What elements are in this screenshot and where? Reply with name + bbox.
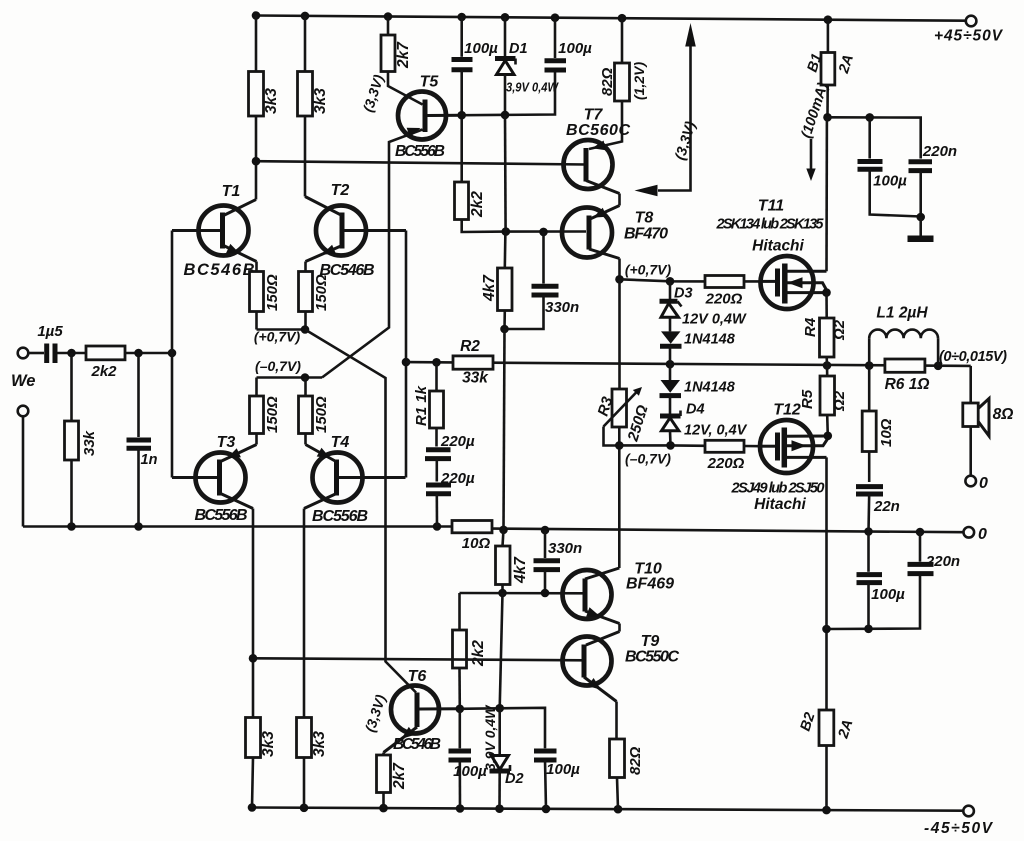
capacitor 330n (upper) (505, 232, 580, 329)
svg-text:3k3: 3k3 (311, 731, 328, 757)
svg-text:0: 0 (978, 526, 987, 543)
wire: -45V bottom supply rail (252, 808, 963, 811)
resistor 220R (T12 gate) (705, 440, 762, 472)
svg-text:T2: T2 (331, 182, 350, 199)
transistor T3 BC556B (172, 434, 257, 658)
svg-text:3k3: 3k3 (263, 88, 280, 114)
node: T12 source junction (824, 432, 833, 441)
svg-text:T4: T4 (331, 434, 350, 451)
svg-text:220µ: 220µ (440, 433, 475, 450)
svg-text:D2: D2 (505, 771, 524, 787)
svg-text:T6: T6 (408, 668, 427, 685)
svg-text:T5: T5 (420, 74, 440, 91)
svg-text:D3: D3 (674, 286, 693, 302)
resistor 150R (T2 emitter) (299, 272, 331, 330)
svg-text:12V 0,4W: 12V 0,4W (682, 312, 747, 328)
transistor T12 2SJ49 (P-MOSFET) (731, 402, 828, 514)
wire: crossover (-0,7V) to T5 collector (322, 130, 423, 378)
diode 1N4148 (upper) (660, 331, 736, 364)
capacitor 1u5 input (28, 323, 86, 363)
annotation: (3,3V) arrow (635, 23, 700, 196)
capacitor 22n zobel (856, 487, 900, 532)
svg-text:D1: D1 (509, 41, 528, 57)
resistor 150R (T4 emitter) (299, 378, 331, 445)
svg-text:L1 2µH: L1 2µH (876, 305, 928, 322)
ground symbol (chassis) (908, 217, 934, 239)
node: (+0,7V) upper emitter rail (254, 325, 309, 344)
terminal: -45÷50V (924, 806, 994, 837)
node: 0V line junction dots (67, 522, 924, 536)
svg-text:33k: 33k (462, 370, 489, 387)
zener diode D4 12V 0.4W (660, 402, 748, 446)
node: (-0,7V) lower emitter rail (255, 358, 322, 382)
svg-text:-45÷50V: -45÷50V (924, 820, 994, 837)
terminal: input ground (18, 406, 29, 527)
svg-text:3,9V 0,4W: 3,9V 0,4W (506, 80, 559, 95)
svg-text:R1 1k: R1 1k (413, 385, 430, 426)
node: B1 bottom / T11 drain (823, 113, 832, 122)
svg-text:150Ω: 150Ω (313, 274, 330, 311)
transistor T1 BC546B (172, 161, 257, 279)
svg-text:R4: R4 (802, 317, 819, 337)
terminal: 0V output (964, 526, 988, 543)
resistor R6 1R (885, 359, 930, 393)
svg-text:1N4148: 1N4148 (684, 332, 736, 348)
svg-text:(+0,7V): (+0,7V) (625, 262, 672, 278)
svg-text:4k7: 4k7 (512, 556, 529, 584)
svg-text:T8: T8 (635, 210, 654, 227)
speaker 8R (963, 366, 1014, 476)
resistor 2k2 (T5 bias) (455, 182, 506, 232)
svg-text:(1,2V): (1,2V) (631, 62, 647, 100)
wire: T8 base line (502, 227, 587, 236)
wire: T3 collector to T9 base line (249, 654, 584, 663)
transistor T9 BC550C (563, 632, 680, 740)
svg-text:2k7: 2k7 (391, 762, 408, 790)
svg-text:D4: D4 (686, 402, 705, 418)
svg-text:BC550C: BC550C (625, 649, 679, 666)
wire: D1 to T8 base column (504, 115, 507, 232)
wire: crossover (+0,7V) to T6 collector (305, 330, 416, 693)
svg-text:3k3: 3k3 (312, 88, 329, 114)
node: input junctions (67, 349, 176, 358)
capacitor 330n (lower) (534, 530, 583, 593)
resistor 2k2 (T6 bias) (453, 593, 488, 709)
resistor R1 1k feedback shunt (413, 362, 444, 446)
wire: D1 node A line (427, 70, 555, 119)
wire: T10 base line (460, 589, 586, 598)
transistor T8 BF470 (562, 206, 668, 280)
svg-text:BC556B: BC556B (395, 143, 445, 160)
transistor T6 BC546B (362, 668, 460, 753)
capacitor 100u (D2 right) (534, 751, 580, 809)
svg-text:220Ω: 220Ω (707, 455, 745, 472)
svg-text:2k2: 2k2 (470, 640, 487, 667)
svg-text:12V, 0,4V: 12V, 0,4V (684, 423, 748, 439)
resistor 4k7 (lower) (496, 530, 530, 593)
svg-text:220n: 220n (925, 553, 960, 570)
svg-text:22n: 22n (873, 498, 900, 515)
capacitor 1n input (127, 353, 158, 527)
svg-text:BC560C: BC560C (566, 122, 630, 139)
svg-text:100µ: 100µ (546, 761, 580, 778)
capacitor 220u (upper) (425, 433, 475, 482)
wire: bias column to 0V line (504, 329, 505, 530)
svg-text:Ω2: Ω2 (831, 319, 848, 341)
resistor 2k7 (T6 emitter) (377, 753, 409, 809)
fuse B2 2A (798, 629, 857, 810)
capacitor 100u (D1 right) (545, 18, 593, 70)
svg-text:BF470: BF470 (624, 226, 668, 243)
capacitor 220n (bottom right) (908, 532, 961, 574)
svg-text:220Ω: 220Ω (705, 291, 743, 308)
resistor 82R (T9 emitter) (610, 739, 645, 809)
resistor 10R in ground line (452, 521, 492, 553)
resistor 150R (T3 emitter) (250, 378, 282, 445)
svg-text:(0÷0,015V): (0÷0,015V) (939, 349, 1007, 365)
resistor 2k2 input series (86, 346, 172, 380)
svg-text:330n: 330n (548, 540, 582, 557)
svg-text:2k7: 2k7 (395, 41, 412, 69)
svg-text:100µ: 100µ (464, 40, 498, 57)
transistor T4 BC556B (304, 434, 406, 718)
wire: +rail decoupling branch (828, 113, 921, 158)
svg-text:BC556B: BC556B (195, 507, 248, 524)
node: T11 source junction (822, 288, 831, 297)
wire: T10 base to D2 column (500, 593, 503, 708)
svg-text:R6 1Ω: R6 1Ω (885, 376, 930, 393)
resistor 150R (T1 emitter) (250, 272, 282, 330)
zener diode D3 12V 0.4W (660, 281, 747, 331)
svg-text:3k3: 3k3 (260, 731, 277, 757)
svg-text:2SJ49 lub 2SJ50: 2SJ49 lub 2SJ50 (731, 481, 825, 497)
fuse B1 2A (805, 20, 857, 118)
wire: 0V ground line (23, 527, 963, 533)
resistor R2 33k feedback (453, 338, 493, 387)
transistor T2 BC546B (305, 182, 406, 279)
svg-text:1N4148: 1N4148 (684, 380, 736, 396)
svg-text:10Ω: 10Ω (462, 535, 491, 552)
transistor T7 BC560C (564, 107, 631, 206)
svg-text:1n: 1n (141, 452, 158, 468)
capacitor 220n (top right) (909, 143, 958, 221)
svg-text:T3: T3 (217, 434, 236, 451)
zener diode D1 3.9V (495, 17, 559, 115)
annotation: (100mA) arrow (799, 81, 832, 181)
svg-text:We: We (11, 372, 35, 390)
svg-text:2SK134 lub 2SK135: 2SK134 lub 2SK135 (716, 217, 825, 233)
resistor 3k3 (T4 collector load) (297, 718, 329, 808)
diode 1N4148 (lower) (660, 364, 736, 415)
wire: T1/T3 base column (171, 231, 174, 478)
resistor 3k3 (T2 collector load) (298, 16, 330, 197)
svg-text:150Ω: 150Ω (264, 274, 281, 311)
svg-text:Ω2: Ω2 (831, 390, 848, 412)
svg-text:Hitachi: Hitachi (754, 496, 806, 513)
transistor T11 2SK134 (N-MOSFET) (716, 198, 827, 310)
resistor 2k7 (T5 emitter) (381, 17, 423, 105)
svg-text:10Ω: 10Ω (878, 418, 895, 447)
wire: T2/T4 base feedback column (402, 231, 411, 478)
svg-text:100µ: 100µ (873, 173, 907, 190)
svg-text:33k: 33k (81, 430, 98, 456)
svg-text:(+0,7V): (+0,7V) (254, 329, 301, 345)
resistor 3k3 (T3 collector load) (246, 658, 278, 807)
svg-text:220n: 220n (922, 143, 957, 160)
svg-text:BC546B: BC546B (184, 261, 255, 279)
svg-text:100µ: 100µ (871, 586, 905, 603)
svg-text:330n: 330n (545, 299, 579, 316)
svg-text:1µ5: 1µ5 (37, 323, 63, 340)
zener diode D2 3.9V (482, 704, 524, 809)
node: 4k7/330n junction (500, 325, 509, 334)
terminal: speaker return 0 (965, 475, 988, 492)
transistor T10 BF469 (563, 446, 675, 632)
wire: -rail decoupling branch (822, 574, 920, 633)
svg-text:BC546B: BC546B (393, 736, 441, 753)
svg-text:T12: T12 (773, 402, 801, 419)
svg-text:220µ: 220µ (440, 470, 475, 487)
svg-text:3,9V 0,4W: 3,9V 0,4W (482, 704, 498, 771)
resistor 3k3 (T1 collector load) (249, 16, 281, 162)
inductor L1 2uH (869, 305, 938, 366)
svg-text:R5: R5 (799, 389, 816, 409)
svg-text:Hitachi: Hitachi (752, 238, 804, 255)
svg-text:0: 0 (979, 475, 988, 492)
node: (-0,7V) gate drive lower (615, 441, 705, 466)
svg-text:R2: R2 (460, 338, 480, 355)
svg-text:(–0,7V): (–0,7V) (625, 451, 671, 467)
resistor 82R (T7 emitter) (589, 18, 647, 149)
svg-text:T1: T1 (222, 183, 241, 200)
svg-text:4k7: 4k7 (481, 274, 498, 302)
svg-text:150Ω: 150Ω (264, 396, 281, 433)
transistor T5 BC556B (360, 72, 462, 160)
wire: T12 drain to B2 (825, 457, 828, 629)
resistor 220R (T11 gate) (705, 276, 762, 308)
svg-text:BC556B: BC556B (312, 508, 368, 525)
svg-text:2k2: 2k2 (90, 363, 117, 380)
capacitor 100u (D2 left) (449, 709, 488, 809)
svg-text:8Ω: 8Ω (993, 406, 1014, 423)
wire: T11 drain to B1 (825, 117, 828, 271)
node: (+0,7V) gate drive upper (615, 262, 705, 286)
wire: T1 collector to T7 base line (252, 157, 586, 166)
potentiometer R3 250R (595, 279, 652, 445)
resistor 33k input shunt (65, 353, 99, 527)
svg-text:T11: T11 (758, 198, 784, 215)
terminal: input We (11, 348, 35, 390)
node: top rail junction dots (252, 11, 833, 24)
svg-text:BF469: BF469 (626, 576, 674, 593)
wire: output/feedback line (406, 358, 971, 370)
resistor 4k7 (upper) (481, 232, 512, 329)
capacitor 100u (bottom right) (857, 532, 906, 629)
node: bottom rail junction dots (248, 803, 831, 814)
svg-text:82Ω: 82Ω (599, 67, 616, 96)
capacitor 220u (lower) (426, 470, 475, 527)
svg-text:T9: T9 (641, 633, 660, 650)
resistor R4 0.2R (802, 293, 848, 366)
svg-text:100µ: 100µ (558, 40, 592, 57)
svg-text:(–0,7V): (–0,7V) (255, 358, 301, 374)
resistor 10R zobel (862, 366, 895, 482)
wire: node A' line (T6 base) (456, 704, 546, 748)
capacitor 100u (top right) (858, 117, 921, 216)
terminal: +45÷50V (934, 16, 1004, 45)
svg-text:T7: T7 (584, 107, 604, 124)
svg-text:+45÷50V: +45÷50V (934, 28, 1004, 45)
resistor R5 0.2R (799, 365, 848, 435)
svg-text:2k2: 2k2 (469, 191, 486, 218)
svg-text:150Ω: 150Ω (313, 396, 330, 433)
svg-text:82Ω: 82Ω (627, 746, 644, 775)
wire: +45V top supply rail (256, 16, 966, 21)
capacitor 100u (D1 left) (452, 17, 499, 182)
